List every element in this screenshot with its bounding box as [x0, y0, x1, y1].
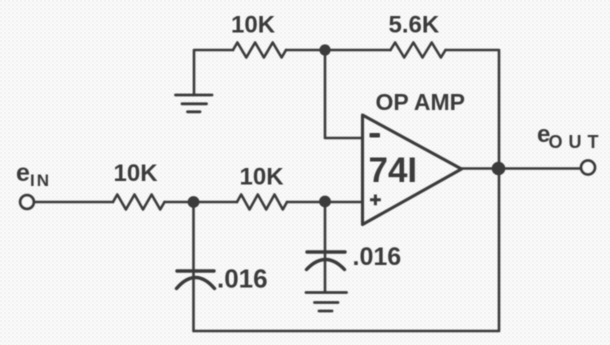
svg-text:10K: 10K — [114, 160, 159, 187]
svg-text:e: e — [16, 159, 30, 187]
node B junction — [319, 196, 331, 208]
svg-text:10K: 10K — [240, 164, 285, 191]
wire node B to non-inverting input — [287, 201, 363, 204]
wire op-amp output to terminal — [462, 167, 581, 170]
ground top-left — [176, 95, 213, 112]
op-amp plus pin mark — [370, 195, 381, 206]
svg-text:IN: IN — [30, 171, 51, 190]
capacitor C1 .016 plates — [177, 271, 215, 289]
resistor 5.6K feedback — [391, 43, 446, 58]
wire node A to R2 — [165, 201, 238, 204]
svg-text:74I: 74I — [369, 151, 418, 190]
svg-text:.016: .016 — [217, 264, 268, 294]
svg-text:10K: 10K — [231, 12, 276, 39]
wire capacitor C2 vertical (node B to ground) — [324, 202, 327, 293]
wire feedback drop to inverting input — [325, 50, 363, 138]
ground under C2 — [306, 293, 347, 312]
svg-text:5.6K: 5.6K — [389, 12, 440, 39]
node junction top (feedback) — [319, 44, 330, 55]
capacitor C2 .016 plates — [307, 252, 346, 270]
input terminal circle — [20, 195, 34, 209]
op-amp minus pin mark — [370, 133, 381, 138]
op-amp U1 741 triangle — [363, 115, 462, 225]
node A junction — [188, 196, 200, 208]
svg-text:.016: .016 — [353, 243, 402, 271]
wire capacitor C1 vertical (node A to bottom rail) — [192, 202, 195, 331]
wire top rail right + right rail + bottom rail — [194, 50, 499, 331]
svg-text:OUT: OUT — [549, 132, 605, 152]
output terminal circle — [581, 161, 595, 175]
resistor 10K middle — [237, 195, 287, 210]
wire top rail left with ground drop — [194, 50, 233, 95]
node output junction — [492, 162, 506, 176]
wire top rail middle (junction to 5.6K) — [286, 49, 391, 52]
svg-text:OP AMP: OP AMP — [376, 89, 465, 115]
wire input terminal to R1 — [34, 201, 113, 204]
resistor 10K input — [113, 195, 165, 210]
resistor 10K top (ground leg) — [233, 43, 286, 58]
